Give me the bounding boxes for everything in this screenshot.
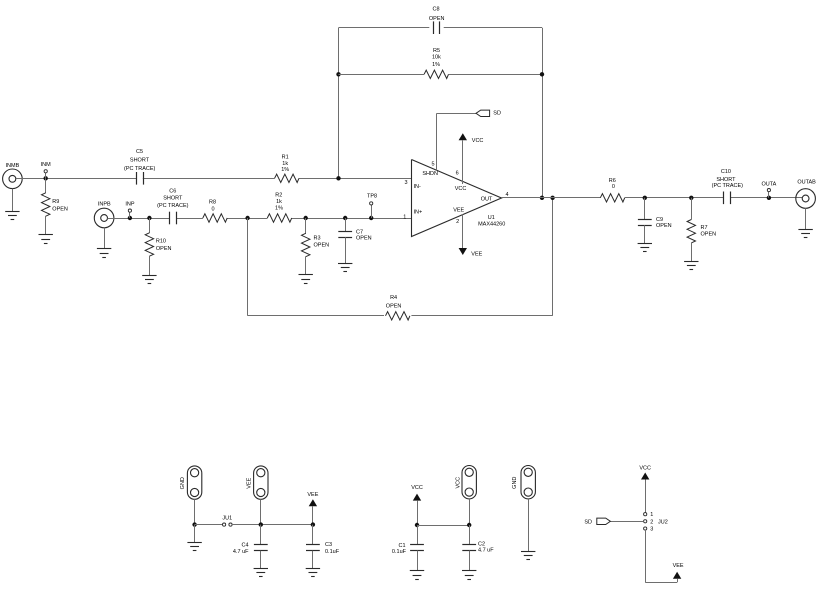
svg-text:R1: R1 bbox=[282, 154, 289, 160]
svg-text:1%: 1% bbox=[432, 62, 440, 68]
svg-text:OPEN: OPEN bbox=[429, 16, 445, 22]
ground under R7 bbox=[684, 261, 698, 263]
svg-text:4.7 uF: 4.7 uF bbox=[233, 549, 249, 555]
svg-text:5: 5 bbox=[431, 161, 434, 167]
wire R5 left bbox=[339, 74, 425, 76]
svg-text:OUT: OUT bbox=[481, 196, 493, 202]
wire VEE arrow stem bbox=[312, 506, 314, 524]
wire R7 top stub bbox=[691, 198, 693, 220]
svg-text:VCC: VCC bbox=[639, 466, 651, 472]
node C9 junction bbox=[643, 196, 647, 200]
resistor R1 bbox=[275, 174, 299, 182]
testpoint INP bbox=[128, 209, 131, 212]
wire feedback left vertical bbox=[338, 28, 340, 179]
svg-text:C6: C6 bbox=[169, 189, 176, 195]
wire C2 bottom stub bbox=[469, 551, 471, 571]
ground under R3 bbox=[299, 274, 313, 276]
svg-text:R7: R7 bbox=[701, 225, 708, 231]
pad GND (VCC group) bbox=[521, 466, 535, 499]
svg-text:R9: R9 bbox=[52, 199, 59, 205]
svg-text:OPEN: OPEN bbox=[314, 243, 330, 249]
node INM junction bbox=[44, 176, 48, 180]
svg-text:C9: C9 bbox=[656, 217, 663, 223]
wire C9 bottom stub bbox=[644, 225, 646, 243]
wire R3 top stub bbox=[305, 218, 307, 234]
svg-text:0.1uF: 0.1uF bbox=[392, 549, 407, 555]
svg-text:R3: R3 bbox=[314, 236, 321, 242]
svg-text:VEE: VEE bbox=[307, 492, 318, 498]
node R4 output junction bbox=[550, 196, 554, 200]
svg-text:OUTAB: OUTAB bbox=[797, 180, 816, 186]
svg-text:SD: SD bbox=[584, 519, 592, 525]
capacitor C9 bbox=[638, 219, 652, 221]
resistor R8 bbox=[203, 214, 227, 222]
svg-text:VEE: VEE bbox=[247, 477, 253, 488]
capacitor C1 bbox=[410, 544, 424, 546]
power VCC arrow (supply) bbox=[413, 494, 421, 501]
svg-text:SD: SD bbox=[493, 110, 501, 116]
testpoint OUTA bbox=[767, 189, 770, 192]
wire R7 bottom stub bbox=[691, 243, 693, 261]
wire INP rail segment 1 bbox=[108, 218, 170, 220]
svg-text:SHDN: SHDN bbox=[422, 171, 438, 177]
svg-text:OPEN: OPEN bbox=[356, 236, 372, 242]
svg-text:GND: GND bbox=[512, 477, 518, 489]
resistor R9 bbox=[42, 193, 50, 216]
testpoint INP stub bbox=[129, 212, 131, 218]
wire C7 bottom stub bbox=[345, 237, 347, 263]
svg-text:R4: R4 bbox=[390, 295, 397, 301]
wire GND pad to ground bbox=[528, 499, 530, 552]
svg-text:VEE: VEE bbox=[471, 251, 482, 257]
wire VCC arrow stem bbox=[417, 501, 419, 525]
ground under C2 bbox=[462, 570, 476, 572]
wire SD to JU2 pin2 bbox=[610, 521, 643, 523]
svg-text:0.1uF: 0.1uF bbox=[325, 549, 340, 555]
resistor R4 bbox=[386, 312, 410, 320]
testpoint INM stub bbox=[45, 173, 47, 178]
node C7 junction bbox=[343, 216, 347, 220]
testpoint INM bbox=[44, 170, 47, 173]
svg-text:INM: INM bbox=[41, 162, 52, 168]
node VEE pad junction bbox=[259, 522, 263, 526]
svg-text:R5: R5 bbox=[433, 48, 440, 54]
svg-text:TP8: TP8 bbox=[367, 193, 377, 199]
svg-text:VCC: VCC bbox=[472, 138, 484, 144]
svg-text:1k: 1k bbox=[276, 199, 282, 205]
svg-text:(PC TRACE): (PC TRACE) bbox=[712, 183, 744, 189]
svg-text:1: 1 bbox=[403, 214, 406, 220]
svg-text:SHORT: SHORT bbox=[130, 157, 150, 163]
svg-text:JU1: JU1 bbox=[222, 515, 232, 521]
svg-text:6: 6 bbox=[456, 171, 459, 177]
wire C2 top stub bbox=[469, 525, 471, 544]
wire R9 bottom stub bbox=[45, 216, 47, 235]
resistor R3 bbox=[302, 233, 310, 256]
svg-text:INMB: INMB bbox=[6, 163, 20, 169]
svg-text:C3: C3 bbox=[325, 542, 332, 548]
svg-text:10k: 10k bbox=[432, 55, 441, 61]
wire R4 loop left vertical bbox=[247, 218, 249, 316]
wire to JU1 bbox=[195, 524, 223, 526]
wire R10 bottom stub bbox=[149, 256, 151, 275]
op-amp U1 triangle bbox=[412, 160, 502, 237]
node C1 junction bbox=[415, 523, 419, 527]
pad VEE bbox=[254, 466, 268, 499]
ground under C3 bbox=[306, 568, 320, 570]
node feedback left top junction bbox=[336, 72, 340, 76]
node R7 junction bbox=[689, 196, 693, 200]
svg-text:VEE: VEE bbox=[673, 563, 684, 569]
wire C3 top stub bbox=[312, 525, 314, 545]
ground under INPB bbox=[97, 248, 111, 250]
node R3 junction bbox=[304, 216, 308, 220]
svg-text:OPEN: OPEN bbox=[386, 303, 402, 309]
jumper JU2 pin 1 bbox=[644, 513, 647, 516]
wire C1 bottom stub bbox=[417, 551, 419, 571]
svg-text:2: 2 bbox=[650, 519, 653, 525]
power VCC arrow at U1 bbox=[459, 133, 467, 140]
svg-text:3: 3 bbox=[404, 180, 407, 186]
svg-text:1%: 1% bbox=[281, 167, 289, 173]
node feedback right bottom junction bbox=[540, 196, 544, 200]
svg-text:INPB: INPB bbox=[98, 202, 111, 208]
node INP junction bbox=[128, 216, 132, 220]
testpoint flag SD (JU2) bbox=[597, 518, 611, 524]
wire R3 bottom stub bbox=[305, 257, 307, 275]
svg-text:C5: C5 bbox=[136, 149, 143, 155]
power VEE arrow (JU2) bbox=[673, 572, 681, 579]
svg-text:1k: 1k bbox=[282, 161, 288, 167]
pad VCC bbox=[462, 466, 476, 499]
wire C4 bottom stub bbox=[260, 551, 262, 569]
svg-text:3: 3 bbox=[650, 527, 653, 533]
wire VCC to JU2 pin1 bbox=[645, 480, 647, 513]
wire JU1 to VEE rail bbox=[232, 524, 313, 526]
node OUTA junction bbox=[767, 196, 771, 200]
testpoint TP8 stub bbox=[371, 205, 373, 218]
node TP8 junction bbox=[369, 216, 373, 220]
wire feedback right vertical bbox=[542, 28, 544, 198]
jumper JU2 pin 2 bbox=[644, 520, 647, 523]
svg-text:OPEN: OPEN bbox=[701, 231, 717, 237]
wire pin2 to VEE bbox=[462, 214, 464, 248]
svg-text:R8: R8 bbox=[209, 200, 216, 206]
power VCC arrow (JU2) bbox=[641, 473, 649, 480]
svg-text:C4: C4 bbox=[241, 543, 248, 549]
svg-text:0: 0 bbox=[612, 184, 615, 190]
resistor R2 bbox=[267, 214, 291, 222]
wire VCC rail bbox=[417, 525, 469, 527]
ground under C4 bbox=[254, 568, 268, 570]
ground under R9 bbox=[39, 234, 53, 236]
ground under OUTAB bbox=[798, 229, 812, 231]
svg-text:(PC TRACE): (PC TRACE) bbox=[124, 166, 156, 172]
wire INP rail segment 2 bbox=[176, 218, 203, 220]
resistor R10 bbox=[145, 233, 153, 256]
capacitor C10 bbox=[723, 192, 725, 205]
wire INPB stub to ground bbox=[104, 228, 106, 249]
resistor R7 bbox=[687, 220, 695, 243]
capacitor C3 bbox=[306, 544, 320, 546]
pad GND (VEE group) bbox=[187, 466, 201, 499]
wire VCC to pin6 bbox=[462, 140, 464, 184]
resistor R6 bbox=[600, 194, 624, 202]
wire INM rail segment 1 bbox=[16, 178, 137, 180]
ground under C9 bbox=[638, 243, 652, 245]
capacitor C4 bbox=[254, 544, 268, 546]
svg-text:C8: C8 bbox=[432, 6, 439, 12]
wire OUT rail segment 3 bbox=[730, 197, 802, 199]
svg-text:VCC: VCC bbox=[456, 477, 462, 489]
svg-text:JU2: JU2 bbox=[658, 519, 668, 525]
testpoint OUTA stub bbox=[768, 192, 770, 198]
ground under R10 bbox=[142, 275, 156, 277]
wire C3 bottom stub bbox=[312, 551, 314, 569]
svg-text:IN+: IN+ bbox=[414, 209, 423, 215]
svg-text:2: 2 bbox=[456, 219, 459, 225]
wire INMB stub to ground bbox=[12, 189, 14, 212]
svg-text:4.7 uF: 4.7 uF bbox=[478, 548, 494, 554]
resistor R5 bbox=[424, 70, 448, 78]
connector INPB (BNC) bbox=[94, 208, 114, 228]
svg-text:U1: U1 bbox=[488, 215, 495, 221]
wire OUT rail segment 2 bbox=[625, 197, 724, 199]
node R10 junction bbox=[147, 216, 151, 220]
wire INM rail segment 2 bbox=[143, 178, 275, 180]
capacitor C2 bbox=[462, 544, 476, 546]
wire JU2 pin3 to VEE bbox=[645, 530, 647, 582]
jumper JU1 bbox=[223, 523, 226, 526]
svg-text:IN-: IN- bbox=[414, 184, 422, 190]
testpoint flag SD bbox=[476, 110, 490, 116]
wire R10 top stub bbox=[149, 218, 151, 233]
wire VCC pad stub bbox=[469, 499, 471, 525]
wire R4 loop bottom right bbox=[411, 315, 552, 317]
svg-text:C7: C7 bbox=[356, 229, 363, 235]
ground under INMB bbox=[5, 211, 19, 213]
node C2 junction bbox=[467, 523, 471, 527]
capacitor C8 bbox=[433, 21, 435, 34]
power VEE arrow at U1 bbox=[459, 248, 467, 255]
svg-text:OPEN: OPEN bbox=[656, 223, 672, 229]
wire R5 right bbox=[449, 74, 543, 76]
ground under C7 bbox=[338, 263, 352, 265]
svg-text:MAX44260: MAX44260 bbox=[478, 222, 505, 228]
wire GND pad to ground bbox=[194, 525, 196, 543]
node feedback right top junction bbox=[540, 72, 544, 76]
connector INMB (BNC) bbox=[3, 169, 23, 189]
svg-text:GND: GND bbox=[180, 477, 186, 489]
wire C9 top stub bbox=[644, 198, 646, 219]
wire SD to pin5 bbox=[437, 113, 476, 115]
capacitor C7 bbox=[338, 231, 352, 233]
wire C4 top stub bbox=[260, 525, 262, 545]
wire VEE pad stub bbox=[260, 499, 262, 524]
wire INM rail segment 3 bbox=[299, 178, 411, 180]
node GND pad junction bbox=[192, 522, 196, 526]
svg-text:(PC TRACE): (PC TRACE) bbox=[157, 203, 189, 209]
wire C1 top stub bbox=[417, 525, 419, 544]
svg-text:SHORT: SHORT bbox=[163, 196, 183, 202]
wire C7 top stub bbox=[345, 218, 347, 231]
svg-text:R2: R2 bbox=[275, 193, 282, 199]
svg-text:VCC: VCC bbox=[411, 485, 423, 491]
svg-text:INP: INP bbox=[125, 201, 135, 207]
ground under C1 bbox=[410, 570, 424, 572]
wire R9 top stub bbox=[45, 178, 47, 193]
svg-text:VEE: VEE bbox=[453, 207, 464, 213]
wire C8 top left bbox=[339, 27, 430, 29]
power VEE arrow (supply) bbox=[309, 499, 317, 506]
wire OUT rail segment 1 bbox=[501, 197, 600, 199]
connector OUTAB (BNC) bbox=[796, 189, 816, 209]
node feedback left bottom junction bbox=[336, 176, 340, 180]
svg-text:R10: R10 bbox=[156, 239, 166, 245]
svg-text:C10: C10 bbox=[721, 169, 731, 175]
capacitor C6 bbox=[169, 212, 171, 225]
wire GND pad stub bbox=[194, 499, 196, 524]
svg-text:OPEN: OPEN bbox=[52, 206, 68, 212]
wire INP rail segment 3 bbox=[227, 218, 267, 220]
ground under GND pad bbox=[187, 542, 201, 544]
svg-text:OUTA: OUTA bbox=[761, 182, 776, 188]
wire R4 loop right vertical bbox=[552, 198, 554, 316]
capacitor C5 bbox=[136, 172, 138, 185]
wire INP rail segment 4 bbox=[292, 218, 411, 220]
svg-text:1: 1 bbox=[650, 512, 653, 518]
jumper JU2 pin 3 bbox=[644, 527, 647, 530]
node R4 tap junction bbox=[245, 216, 249, 220]
wire C8 top right bbox=[444, 27, 542, 29]
wire OUTAB stub to ground bbox=[805, 208, 807, 229]
testpoint TP8 bbox=[370, 202, 373, 205]
node C3 junction bbox=[311, 522, 315, 526]
svg-text:1%: 1% bbox=[275, 206, 283, 212]
svg-text:0: 0 bbox=[211, 206, 214, 212]
svg-text:VCC: VCC bbox=[455, 186, 467, 192]
svg-text:OPEN: OPEN bbox=[156, 246, 172, 252]
wire R4 loop bottom left bbox=[248, 315, 384, 317]
ground under GND pad (VCC group) bbox=[521, 551, 535, 553]
